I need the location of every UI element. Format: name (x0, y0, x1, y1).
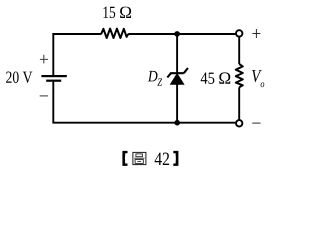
label ohm for R2 (219, 72, 230, 83)
zener diode Dz triangle (170, 74, 184, 85)
battery V1 short plate (46, 80, 61, 82)
label 45 (201, 73, 208, 84)
resistor R1 15-ohm zigzag (101, 29, 128, 38)
label Vo subscript o (261, 82, 265, 87)
label 20 V (6, 72, 11, 83)
label Dz letter D (148, 71, 158, 82)
resistor R2 45-ohm vertical zigzag (236, 64, 243, 87)
battery minus sign (40, 95, 48, 97)
wire right branch lower (238, 87, 240, 120)
label ohm for R1 (120, 7, 131, 18)
wire top rail right part (128, 33, 236, 35)
node A top junction dot (174, 31, 180, 37)
battery plus sign (40, 55, 48, 64)
wire zener upper (176, 34, 178, 74)
label 15 (103, 7, 108, 18)
label Dz subscript Z (157, 78, 162, 85)
terminal top-right open circle (236, 30, 242, 36)
label Vo letter V (252, 70, 262, 82)
battery V1 long plate (41, 75, 66, 77)
wire top rail left part and left rail upper segment (53, 34, 101, 75)
minus sign at output (252, 122, 260, 124)
zener diode Dz cathode bar with bent ends (167, 68, 188, 78)
wire left rail lower segment and bottom rail (53, 82, 236, 123)
caption right lenticular bracket (173, 151, 178, 166)
node B bottom junction dot (174, 120, 180, 126)
wire right branch upper (238, 37, 240, 64)
caption text 42 (155, 153, 162, 165)
wire zener lower (176, 84, 178, 123)
plus sign at output (252, 29, 260, 38)
terminal bottom-right open circle (236, 120, 242, 126)
caption left lenticular bracket (122, 151, 127, 166)
caption CJK character tu (figure) (133, 152, 146, 164)
